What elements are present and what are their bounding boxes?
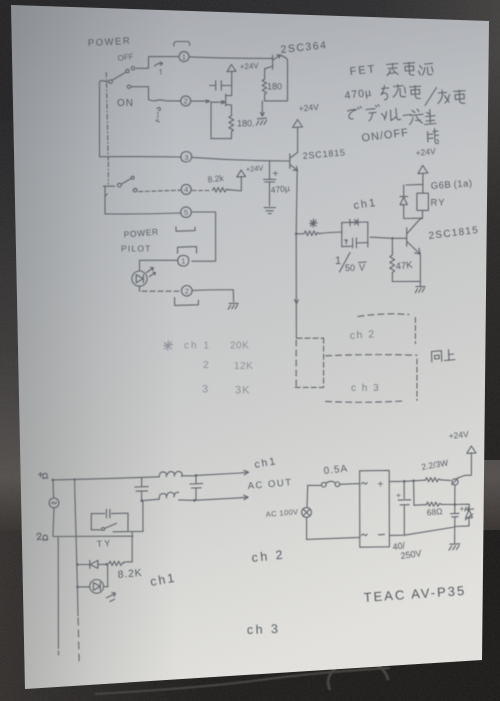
- wire diode to collector junction: [404, 217, 423, 219]
- wire cap right lead to rail: [221, 85, 231, 87]
- C4 leads: [454, 505, 456, 527]
- label bridge ~ top: [362, 482, 368, 484]
- FET gate lead with arrowhead: [211, 101, 225, 104]
- OFF switch arm: [113, 72, 126, 80]
- table group (faint pencil): [164, 341, 253, 397]
- ON contact circle: [127, 85, 130, 88]
- wire relay top tee to diode: [406, 183, 423, 186]
- C2 plate top: [264, 178, 276, 180]
- Q3 collector diagonal: [290, 153, 297, 158]
- arrowhead ch1 out: [241, 470, 249, 474]
- vertical line V1: [57, 538, 59, 649]
- diode D2 triangle: [400, 197, 407, 205]
- gate wire arrowhead: [206, 100, 210, 103]
- terminal circle 4: [181, 184, 191, 194]
- loop bottom wire: [113, 530, 143, 532]
- kanji den2: [410, 86, 421, 99]
- junction dot 68 branch top: [412, 480, 415, 483]
- loop bottom wire: [264, 100, 287, 102]
- switch2 arm tip circle: [131, 176, 134, 179]
- wire terminal1 left to OFF contact: [149, 57, 180, 69]
- RC box top wire: [342, 221, 368, 224]
- diode D2 bottom lead: [403, 205, 405, 219]
- Q2 emitter up with arrowhead: [273, 55, 281, 60]
- filter cap2 top lead: [195, 475, 197, 483]
- terminal circle 3: [181, 152, 192, 163]
- resistor R4 ch1-adjust squiggle: [297, 231, 320, 236]
- diode D4 row left wire: [77, 564, 89, 566]
- capacitor C4 plates: [451, 513, 459, 517]
- wire pilot2 to ground: [192, 290, 233, 302]
- label asterisk: [310, 219, 317, 227]
- +24V arrow D: [237, 170, 246, 177]
- dashed stub box bottom: [295, 386, 323, 388]
- gang linkage dash-dot line: [106, 73, 108, 161]
- wire bottom to bridge: [307, 537, 360, 539]
- V1 dash tail: [58, 651, 60, 657]
- terminal circle 2: [181, 96, 191, 106]
- RC box right column: [367, 222, 369, 247]
- terminal circle 1: [179, 52, 189, 62]
- wire +24V C to relay: [422, 174, 424, 194]
- FET delay section: +24V arrow A: [227, 65, 236, 72]
- kanji ue (above): [445, 350, 456, 361]
- label terminal 2ohm: [37, 533, 48, 540]
- LED D1 triangle and bar: [136, 274, 143, 282]
- kanji sei: [425, 110, 437, 125]
- cap1 plates: [135, 487, 148, 492]
- Q4 collector diagonal: [407, 219, 420, 234]
- wire Q3 emitter bus down: [296, 170, 297, 233]
- AC source lead bottom: [53, 508, 54, 536]
- RC box left column: [341, 223, 343, 247]
- FET source stub: [226, 105, 232, 116]
- choke coil L2: [159, 492, 178, 499]
- dashed ch3 bottom: [326, 401, 406, 402]
- cap2 plates: [190, 484, 203, 488]
- dashed mid wire: [326, 355, 417, 356]
- Q5 collector wire up: [457, 453, 471, 479]
- arrowhead ch2 out: [241, 495, 249, 499]
- dashed ch3 right column: [416, 359, 418, 400]
- Q2 collector diagonal: [265, 66, 273, 69]
- junction dot D4-R6: [105, 563, 108, 566]
- vertical V3 loop to filter: [142, 501, 144, 532]
- FET Q1 channel bar: [225, 94, 227, 106]
- transistor Q5 circle: [452, 479, 458, 485]
- wire terminal1 to 2SC364 base: [189, 57, 272, 59]
- junction dot vertical2 top: [73, 478, 75, 480]
- wire pilot1 to LED: [140, 260, 178, 271]
- resistor R8 68 squiggle: [426, 502, 441, 506]
- dashed wire LED to pilot2: [142, 290, 181, 292]
- relay bottom lead: [421, 210, 423, 219]
- wire zener to emitter line: [455, 525, 469, 528]
- dashed stub box top: [297, 337, 324, 339]
- cap2 bottom lead: [195, 488, 197, 500]
- transistor Q2 2SC364 base bar: [272, 55, 274, 69]
- vertical V5 LED up to R6 junction: [107, 564, 109, 586]
- capacitor C3 plates: [353, 238, 357, 248]
- dashed ch2 right column: [414, 318, 416, 344]
- transistor Q3 2SC1815 base bar: [289, 154, 291, 169]
- pilot terminal circle 1: [178, 255, 189, 266]
- junction dot emitter bus: [295, 233, 298, 236]
- left bus vertical: [99, 84, 101, 157]
- wire D4 to R6: [98, 563, 106, 565]
- LED D5 circle: [90, 580, 104, 594]
- wire terminal2 to FET gate: [191, 100, 210, 102]
- loop bottom-left stub: [91, 529, 101, 531]
- AC source tilde: [52, 502, 57, 504]
- ground lead G5: [454, 527, 456, 543]
- relay RY coil box: [417, 193, 429, 210]
- ground symbol G3: [228, 303, 238, 309]
- 68 branch vertical: [413, 481, 415, 505]
- +24V arrow C: [418, 165, 428, 173]
- switch3 contact circle: [102, 528, 105, 531]
- capacitor C5 40/250V top lead: [403, 481, 405, 498]
- Q2 top curve to loop right column: [280, 55, 287, 59]
- pilot terminal circle 2: [182, 286, 193, 297]
- wire +24V A down: [231, 72, 233, 82]
- kanji tei: [387, 64, 399, 76]
- Q4 emitter diagonal with arrowhead: [407, 242, 420, 254]
- wire to arrow ch2 out: [194, 498, 240, 501]
- kanji den: [404, 63, 415, 76]
- wire OFF contact stub: [136, 67, 149, 69]
- switch2 pivot bar: [103, 185, 114, 187]
- OFF contact circles: [131, 67, 134, 70]
- wire terminal3 right to 2SC1815 base: [192, 157, 290, 161]
- wire terminal5 left: [105, 212, 181, 215]
- zener ZD bar: [465, 508, 474, 510]
- switch2 pivot drop: [105, 187, 107, 214]
- cable on desk: [95, 652, 470, 694]
- loop right column: [287, 60, 289, 101]
- minus rail: [389, 527, 454, 535]
- C2 plate bottom: [265, 181, 275, 183]
- wire gate vertical: [210, 102, 212, 138]
- diode D4 triangle: [90, 560, 98, 568]
- transistor Q4 2SC1815 base bar: [406, 228, 408, 246]
- ground stub under 2SC364 loop: [261, 101, 265, 116]
- loop top-right wire: [112, 512, 128, 514]
- kana dei: [366, 105, 379, 121]
- wire to arrow ch1 out: [196, 473, 241, 475]
- resistor R6 8.2K squiggle: [109, 561, 125, 565]
- vertical V4 loop to R6: [131, 532, 133, 562]
- small r tick: [345, 240, 348, 244]
- zener ZD body: [465, 510, 472, 520]
- LED light arrows (bottom): [107, 593, 116, 602]
- label bridge ~ bottom: [362, 534, 368, 536]
- LED light arrows: [147, 268, 156, 277]
- wire Q4 collector up: [419, 218, 422, 220]
- capacitor C2 470u top lead: [269, 161, 271, 179]
- junction dot cap40 top: [403, 480, 406, 483]
- loop left column: [90, 514, 92, 530]
- switch2 arm: [121, 179, 131, 185]
- Q3 emitter diagonal with arrowhead: [290, 165, 298, 171]
- lamp X: [303, 509, 309, 515]
- C2 bottom lead: [269, 182, 271, 206]
- wire cap left lead: [210, 85, 216, 87]
- dashed wire terminal4 to R 8.2k: [192, 190, 211, 192]
- wire R4 to RC box: [320, 232, 342, 233]
- zener bottom lead: [468, 519, 470, 526]
- wire R8 right: [441, 503, 455, 505]
- FET drain stub: [226, 95, 232, 97]
- kanji hatsu: [410, 109, 424, 125]
- annotation tick i: [160, 70, 163, 74]
- diode D4 bar: [89, 560, 91, 568]
- resistor R5 47K zigzag: [390, 238, 395, 281]
- label table asterisk: [164, 341, 173, 350]
- wire R6 right: [124, 561, 132, 563]
- cap1 bottom lead: [141, 491, 143, 501]
- switch pivot circle: [109, 80, 113, 84]
- Q5 diagonal: [452, 478, 459, 485]
- fuse arc: [326, 481, 336, 483]
- vertical V2 dashed tail: [78, 618, 79, 664]
- kanji juu: [393, 85, 406, 98]
- wire terminal5 right and down to pilot1: [191, 212, 215, 261]
- switch2 gang linkage dash-dot: [107, 162, 109, 184]
- dashed wire contact to terminal4: [139, 190, 181, 191]
- +24V arrow B: [293, 120, 303, 128]
- kanji ryu: [419, 63, 434, 75]
- junction dot Q5 emitter node: [454, 503, 457, 506]
- AC source lead top: [52, 480, 55, 498]
- resistor R-source 180 zigzag: [229, 116, 234, 139]
- motion arrow annotation: [155, 62, 163, 66]
- wire L1 right: [182, 475, 196, 477]
- wire AC top line: [53, 477, 159, 480]
- kana re: [391, 109, 401, 121]
- junction dot after L2: [193, 499, 196, 502]
- transformer loop top-left wire: [91, 513, 104, 515]
- AC source circle: [49, 498, 59, 508]
- wire fuse right to bridge: [340, 483, 360, 486]
- Q4 base lead: [392, 237, 406, 239]
- ground symbol G2: [264, 208, 275, 214]
- wire fuse left: [308, 484, 322, 486]
- emitter bus dashed continuation: [295, 340, 297, 387]
- C5 bottom lead: [403, 505, 405, 535]
- Q5 emitter down: [454, 485, 456, 505]
- resistor R7 2.2/3W squiggle: [425, 478, 440, 482]
- switch3 arm: [105, 523, 117, 528]
- wire +24V B down to Q3 collector: [297, 127, 299, 152]
- plus rail from bridge: [389, 480, 425, 481]
- wire L2 right: [179, 499, 195, 501]
- label terminal 1ohm: [39, 473, 48, 479]
- junction dot D4 left: [76, 563, 79, 566]
- kana wo: [381, 86, 389, 101]
- diode D2 bar: [400, 196, 408, 198]
- LED D5 row left wire: [78, 586, 90, 588]
- RC box bottom wire right: [356, 242, 367, 244]
- kanji toki: [428, 129, 439, 144]
- lower filter wire: [142, 499, 159, 501]
- resistor R3 8.2k squiggle: [213, 188, 229, 193]
- connector bracket B3: [175, 298, 199, 306]
- choon dash: [403, 115, 411, 116]
- connector bracket B1: [176, 227, 195, 231]
- annotation dotted drop: [157, 113, 159, 120]
- kanji hou: [438, 90, 450, 104]
- vertical line V2: [75, 480, 79, 616]
- kanji dou (same): [432, 351, 442, 362]
- terminal circle 5: [181, 207, 192, 218]
- junction dot cap1 bottom: [141, 499, 144, 502]
- wire loop bottom: [211, 138, 232, 140]
- ground symbol G5: [449, 544, 460, 550]
- wire 68 row left: [414, 504, 426, 507]
- INK: [37, 36, 480, 664]
- label bridge - bottom: [379, 533, 385, 535]
- switch2 contact circle: [133, 188, 137, 191]
- ground symbol G4: [415, 287, 425, 293]
- lamp circle: [302, 508, 312, 518]
- filter cap1 top lead: [141, 477, 143, 486]
- bridge rectifier box: [360, 470, 390, 547]
- LED D1 circle: [132, 271, 147, 286]
- kanji den3: [454, 90, 466, 103]
- +24V arrow E: [467, 446, 476, 453]
- kana de: [348, 107, 362, 119]
- annotation tick: [156, 121, 159, 122]
- RC box bottom wire left: [342, 245, 352, 247]
- connector bracket above terminal 1: [174, 42, 190, 47]
- wire RC box to Q4 base: [370, 237, 392, 238]
- dashed ch2 top: [358, 314, 409, 317]
- diode D2 flyback lead down: [403, 185, 405, 196]
- wire R5 bottom to emitter: [392, 281, 420, 285]
- wire D5 right: [104, 586, 108, 588]
- big slash: [425, 88, 437, 106]
- junction dot after L1: [195, 474, 198, 477]
- wire zener branch top: [455, 504, 469, 509]
- capacitor C-timing right plate: [220, 81, 222, 91]
- lamp branch vertical top: [306, 485, 309, 507]
- lamp branch vertical bottom: [306, 517, 308, 539]
- wire ON contact to terminal 2: [131, 87, 181, 101]
- wire Q4 emitter down: [419, 254, 421, 282]
- choke coil L1: [159, 471, 182, 477]
- LED D5 triangle and bar: [93, 582, 100, 590]
- LED bottom lead: [139, 286, 141, 291]
- wire R7 to Q5 base: [440, 479, 450, 482]
- wire FET drain rail: [231, 81, 233, 95]
- connector bracket B2: [178, 247, 197, 254]
- annotation curl below ON: [157, 108, 160, 111]
- ground symbol G1: [256, 118, 266, 125]
- loop capacitor plates: [106, 509, 110, 517]
- junction dot AC top left: [52, 479, 55, 482]
- left bus corner: [100, 81, 109, 84]
- wire AC bottom line: [53, 535, 133, 537]
- kana i small: [382, 112, 387, 121]
- wire R3 to +24V: [229, 177, 242, 191]
- capacitor C-timing left plate: [215, 81, 217, 91]
- fuse circles: [322, 482, 327, 487]
- junction dot D5 left: [76, 586, 79, 589]
- junction dot Q4 base: [391, 237, 393, 239]
- resistor R2 180 zigzag left column: [262, 69, 266, 101]
- dashed stub box right: [323, 338, 325, 387]
- switch2 pivot circle: [118, 183, 122, 187]
- diode D3 in top branch: [350, 219, 358, 226]
- emitter bus down with arrowhead: [295, 234, 299, 338]
- C5 plates: [398, 500, 410, 505]
- loop right column: [127, 513, 129, 531]
- wire terminal3 left to bus: [100, 156, 182, 158]
